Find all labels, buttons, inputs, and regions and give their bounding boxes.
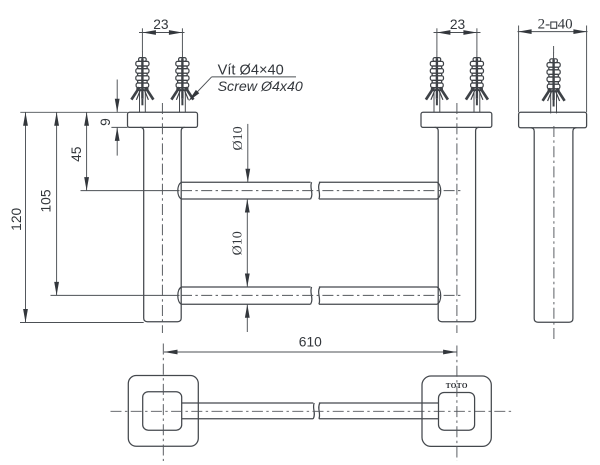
svg-text:23: 23: [450, 17, 466, 32]
side view wall plate: [519, 112, 587, 128]
plan view right post top: [439, 393, 475, 431]
svg-text:120: 120: [9, 207, 24, 230]
screw anchor right-1: [426, 51, 448, 112]
svg-text:Screw Ø4x40: Screw Ø4x40: [218, 79, 303, 95]
left wall plate (front view): [128, 112, 198, 127]
svg-text:40: 40: [558, 17, 573, 33]
svg-text:2-: 2-: [538, 17, 551, 33]
svg-text:610: 610: [299, 335, 322, 350]
svg-text:9: 9: [98, 118, 113, 126]
dimension 610 (post center spacing): [164, 335, 457, 355]
leader label Vit O4x40 / Screw O4x40: [188, 62, 303, 101]
dimension 23 (right screw spacing): [434, 17, 481, 52]
plan view left flange centerline: [162, 344, 164, 462]
dimension 105 (wall to bar 2 center): [39, 112, 60, 295]
extension line at wall face: [20, 111, 127, 113]
bar 2 centerline: [51, 294, 462, 296]
dimension O10 (bar 1 diameter): [231, 124, 250, 182]
plan view left post top: [143, 392, 182, 431]
plan view right flange: [422, 376, 491, 446]
svg-text:Vít Ø4×40: Vít Ø4×40: [218, 62, 284, 78]
bar 1 centerline: [81, 190, 462, 192]
svg-text:105: 105: [39, 189, 54, 212]
svg-text:Ø10: Ø10: [230, 231, 245, 255]
screw anchor left-2: [171, 51, 193, 112]
left post centerline: [161, 103, 163, 333]
towel bar 2 (lower rail): [178, 287, 441, 304]
left post (front view): [140, 127, 185, 321]
plan view left flange: [128, 376, 198, 447]
dimension 9 (plate thickness): [98, 80, 128, 156]
right post centerline: [456, 103, 458, 333]
screw anchor side view: [543, 46, 565, 113]
plan view bar centerline: [111, 410, 514, 412]
dimension O10 (bar 2 diameter): [230, 199, 249, 332]
side view post: [531, 128, 577, 322]
plan view right flange centerline: [456, 346, 458, 462]
right wall plate (front view): [421, 112, 492, 127]
screw anchor left-1: [131, 51, 153, 112]
svg-text:23: 23: [153, 17, 169, 32]
svg-text:45: 45: [69, 146, 84, 162]
plan view bar: [182, 403, 439, 419]
svg-text:Ø10: Ø10: [231, 126, 246, 150]
screw anchor right-2: [466, 51, 488, 112]
dimension 45 (wall to bar 1 center): [69, 112, 89, 190]
side view post centerline: [553, 126, 555, 340]
right post (front view): [435, 127, 479, 321]
towel bar 1 (upper rail): [178, 182, 441, 199]
dimension 120 (wall to post end): [9, 112, 144, 322]
dimension 2-square40 (side view flange): [518, 17, 588, 113]
dimension 23 (left screw spacing): [139, 17, 185, 52]
